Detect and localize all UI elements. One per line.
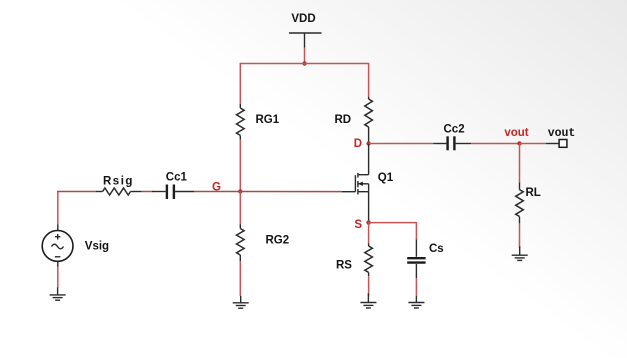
wire RG2 to ground — [239, 261, 241, 296]
resistor RL — [516, 183, 541, 224]
ground (Cs) — [408, 296, 424, 308]
ground (RG2) — [233, 296, 249, 308]
wire Cc1 to node G — [194, 191, 240, 193]
transistor Q1 — [355, 172, 393, 195]
wire RL to ground — [519, 223, 521, 248]
svg-text:Cc1: Cc1 — [166, 171, 188, 183]
resistor RS — [336, 244, 372, 277]
wire Rsig to Cc1 — [142, 191, 153, 193]
wire node vout to terminal — [520, 143, 547, 145]
capacitor Cs — [407, 240, 444, 279]
svg-text:RG2: RG2 — [266, 235, 290, 247]
node S — [354, 219, 370, 231]
wire node D to Q1 drain — [368, 144, 370, 175]
wire node G to Q1 gate — [240, 191, 355, 193]
svg-text:D: D — [354, 138, 362, 150]
resistor RG1 — [237, 104, 280, 140]
svg-text:VDD: VDD — [291, 13, 315, 25]
svg-text:Q1: Q1 — [378, 172, 394, 184]
svg-text:RL: RL — [526, 187, 541, 199]
wire rail to RG1 — [239, 63, 241, 105]
source Vsig — [42, 224, 109, 267]
wire node D to Cc2 — [369, 143, 434, 145]
wire RS to ground — [368, 276, 370, 296]
wire Cs to ground — [415, 278, 417, 296]
svg-text:Cs: Cs — [429, 243, 444, 255]
resistor RD — [335, 97, 373, 127]
capacitor Cc1 — [152, 171, 194, 199]
node vout — [504, 127, 528, 146]
wire top rail — [240, 63, 368, 65]
svg-text:vout: vout — [548, 127, 576, 140]
wire Q1 source to node S — [368, 192, 370, 223]
capacitor Cc2 — [433, 123, 471, 150]
ground (RS) — [360, 293, 376, 308]
resistor RG2 — [237, 224, 290, 261]
terminal vout — [546, 127, 575, 148]
svg-text:S: S — [354, 219, 362, 231]
svg-text:Vsig: Vsig — [85, 241, 109, 253]
wire RD to node D — [368, 127, 370, 144]
wire VDD to top rail — [304, 48, 306, 64]
svg-text:RG1: RG1 — [256, 114, 280, 126]
ground (RL) — [512, 246, 528, 260]
svg-text:vout: vout — [504, 127, 528, 139]
node D — [354, 138, 371, 150]
svg-text:RD: RD — [335, 114, 352, 126]
svg-text:Rsig: Rsig — [103, 176, 134, 188]
wire Cc2 to node vout — [471, 143, 520, 145]
wire node vout to RL — [519, 144, 521, 184]
node G — [212, 182, 242, 194]
wire node S to Cs — [369, 223, 417, 240]
wire node S to RS — [368, 223, 370, 244]
svg-text:Cc2: Cc2 — [444, 123, 465, 135]
svg-text:RS: RS — [336, 260, 352, 272]
ground (Vsig) — [50, 288, 66, 301]
wire rail to RD — [368, 63, 370, 97]
wire RG1 to node G — [239, 140, 241, 192]
power symbol VDD — [289, 13, 322, 48]
wire node G to RG2 — [239, 191, 241, 224]
wire Vsig to ground — [57, 267, 59, 289]
resistor Rsig — [96, 176, 142, 196]
junction on VDD rail — [302, 61, 306, 65]
wire Vsig to Rsig — [57, 192, 59, 225]
